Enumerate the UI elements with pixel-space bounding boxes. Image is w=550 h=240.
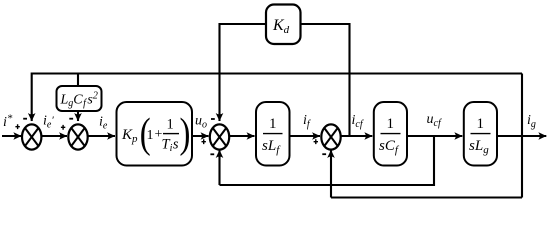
block LgCfs2 (57, 86, 102, 111)
svg-text:): ) (180, 110, 191, 157)
svg-text:ie: ie (99, 115, 108, 132)
sign - at S4 bottom (322, 153, 326, 155)
sign - at S3 top (211, 118, 215, 120)
wire 1/sLg to output ig arrow (497, 135, 546, 137)
sign + at S1 left (15, 124, 19, 129)
svg-text:LgCfs2: LgCfs2 (60, 91, 98, 110)
wire from icf node up and left into Kd (301, 24, 350, 136)
summing junction S2 (68, 124, 87, 149)
sign - at S3 bottom (210, 153, 214, 155)
svg-text:ie′: ie′ (43, 114, 54, 131)
sign - at S2 top (69, 118, 73, 120)
block 1/sLf (256, 102, 290, 166)
wire PI block to S3 (192, 135, 209, 137)
wire 1/sCf to block 1/sLg (407, 135, 462, 137)
block PI controller Kp(1+1/(Ti s)) (117, 102, 193, 166)
summing junction S1 (22, 124, 41, 149)
wire feedback line B from ig node down and left into S4 bottom (331, 196, 522, 198)
wire S1 to S2 (41, 135, 67, 137)
sign + at S4 left (314, 139, 318, 144)
wire feedback line A from ucf node down and left into S3 bottom (220, 136, 435, 185)
svg-text:icf: icf (352, 113, 364, 130)
block 1/sCf (374, 102, 407, 166)
svg-text:1: 1 (269, 116, 277, 132)
sign + at S3 left (202, 139, 206, 144)
svg-text:ucf: ucf (427, 112, 442, 129)
wire ig node vertical up to top line and down to bottom line B (521, 74, 523, 198)
sign + at S2 left (61, 125, 65, 130)
wire from LgCfs2 block down into S2 (77, 111, 79, 121)
wire from Kd left and down into S3 (220, 24, 267, 74)
wire top feedback line from ig node (y=73.5) (32, 74, 522, 122)
svg-text:1: 1 (147, 128, 154, 143)
svg-text:1: 1 (387, 116, 395, 132)
wire 1/sLf to S4 (290, 135, 321, 137)
wire input i* arrow into S1 (2, 135, 21, 137)
svg-text:if: if (303, 113, 311, 130)
svg-text:uo: uo (195, 114, 207, 131)
block 1/sLg (464, 102, 497, 166)
svg-text:1: 1 (477, 116, 485, 132)
wire S4 to block 1/sCf (341, 135, 373, 137)
wire S3 to block 1/sLf (229, 135, 254, 137)
summing junction S4 (321, 124, 340, 149)
svg-text:1: 1 (167, 117, 174, 133)
svg-text:ig: ig (527, 113, 536, 130)
block Kd (266, 5, 301, 45)
sign - at S1 top (23, 118, 27, 120)
wire tap down from top line into LgCfs2 block (77, 74, 79, 88)
wire S2 to PI block (88, 135, 115, 137)
svg-text:i*: i* (3, 112, 13, 130)
summing junction S3 (210, 124, 229, 149)
